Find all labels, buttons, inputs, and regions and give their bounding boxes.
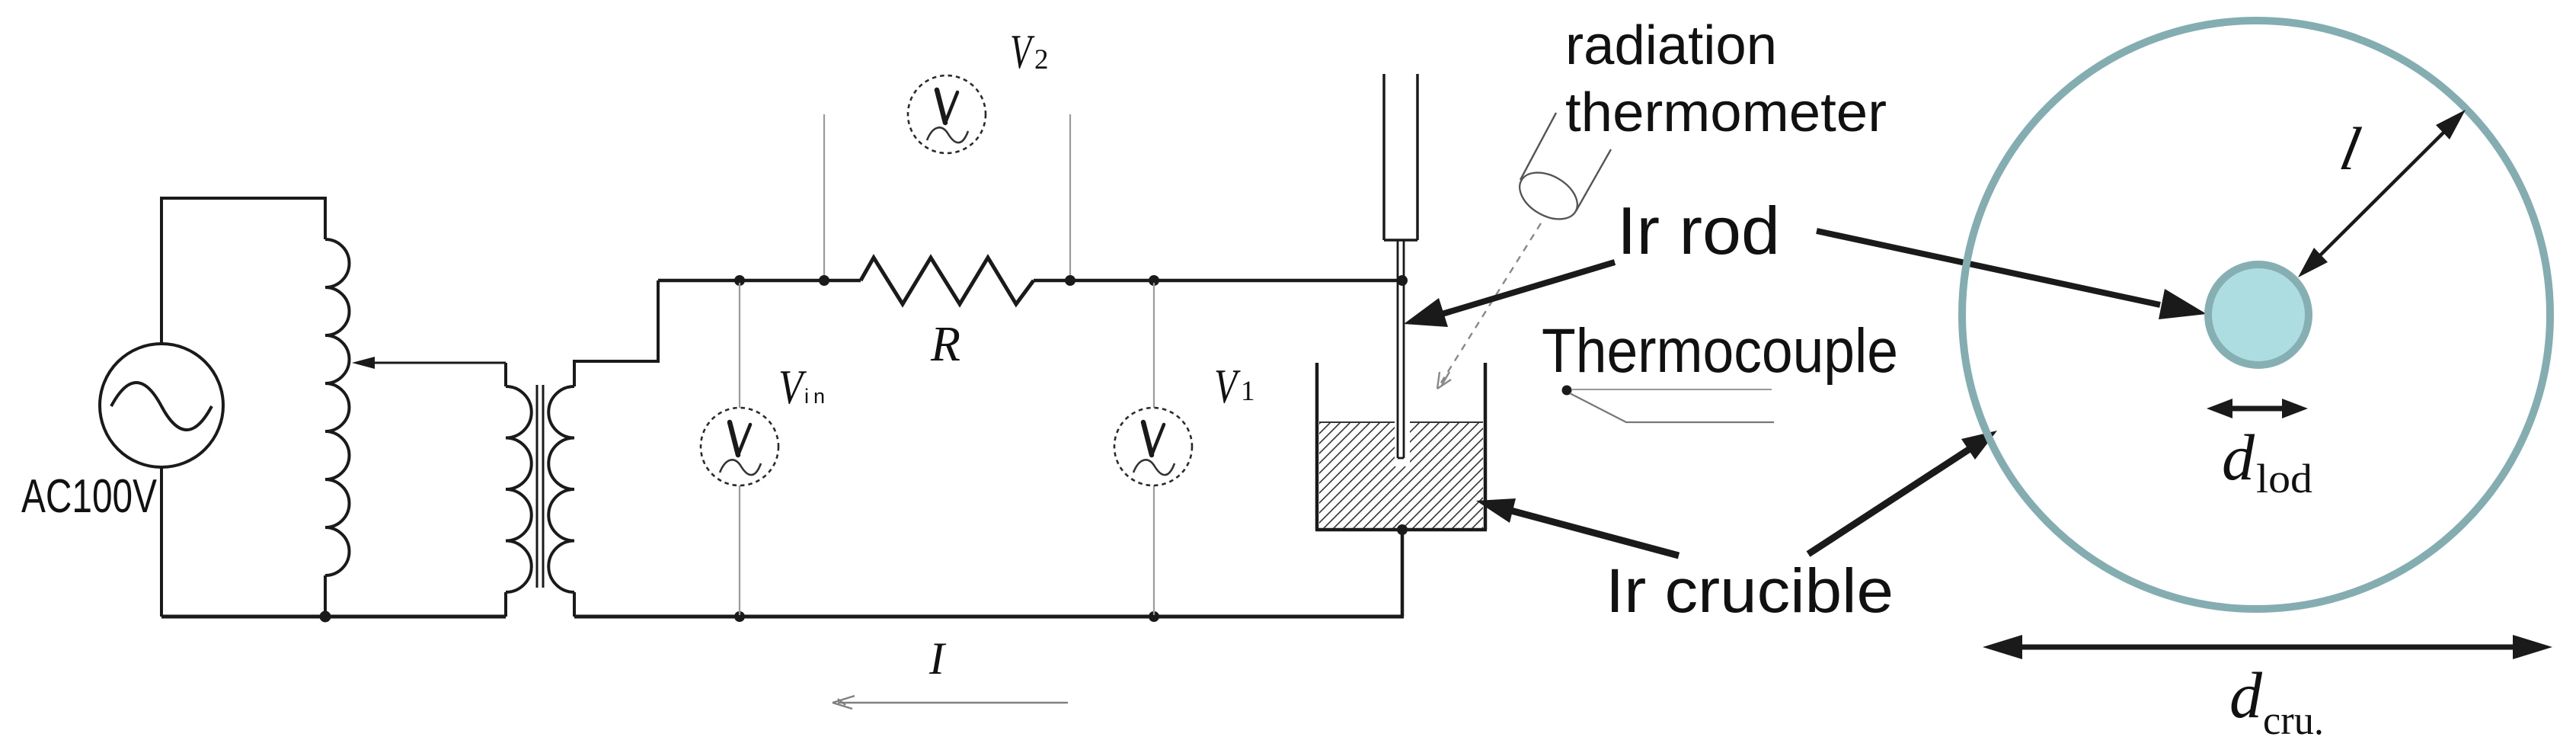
V2 meter lead stub right (1069, 114, 1071, 280)
radiation thermometer lens ellipse (1511, 163, 1585, 229)
thermocouple wire upper (1571, 389, 1772, 390)
current I arrowhead (833, 696, 855, 709)
melt surface line (1319, 421, 1483, 423)
svg-text:AC100V: AC100V (21, 470, 157, 523)
radiation thermometer cylinder body (1520, 113, 1611, 211)
transformer T2 primary winding (506, 386, 532, 592)
node dot bottom-V1 (1149, 611, 1159, 622)
transformer secondary top lead staircase (574, 280, 658, 386)
svg-text:d: d (2229, 658, 2263, 732)
Ir rod cross-section small circle (2208, 264, 2309, 365)
arrow Ir-crucible-label to cross-section circle (1808, 449, 1970, 554)
node dot rail-1405 (1065, 275, 1075, 286)
svg-text:1: 1 (1241, 376, 1255, 407)
svg-text:V: V (778, 360, 807, 414)
voltmeter V2 (908, 75, 986, 153)
arrow Ir-rod-label to rod (1440, 262, 1615, 315)
resistor R (861, 258, 1034, 304)
dimension arrow d_cru (2015, 645, 2520, 650)
variac tap wire (370, 362, 506, 364)
transformer secondary bottom lead (573, 592, 576, 617)
transformer core (537, 385, 543, 588)
node dot bottom-Vin (734, 611, 745, 622)
transformer T2 secondary winding (548, 386, 574, 592)
AC source V0 (circle with sine) (100, 344, 223, 467)
node dot rail-Vin (734, 275, 745, 286)
bottom rail left segment (161, 615, 506, 619)
svg-text:lod: lod (2256, 456, 2312, 501)
svg-text:V: V (1214, 360, 1241, 413)
arrow Ir-crucible-label to crucible (1511, 511, 1679, 556)
svg-text:V: V (1010, 25, 1035, 79)
top rail left of resistor (658, 279, 861, 283)
node dot rail-V1 (1149, 275, 1159, 286)
variac tap arrowhead (352, 357, 375, 369)
node dot rail-1082 (819, 275, 829, 286)
svg-text:cru.: cru. (2263, 697, 2324, 743)
junction dot variac-bottom (320, 611, 331, 623)
dimension arrow d_lod (2228, 406, 2287, 412)
svg-text:Ir crucible: Ir crucible (1606, 556, 1894, 626)
Ir rod (thin rod into melt) (1398, 240, 1404, 458)
bottom rail right segment (574, 615, 1404, 619)
svg-text:Thermocouple: Thermocouple (1542, 316, 1898, 386)
node dot crucible bottom (1397, 524, 1408, 535)
Ir crucible walls (1315, 363, 1487, 530)
voltmeter Vin leads (739, 283, 740, 615)
rod clearance in melt (1395, 421, 1410, 466)
svg-text:2: 2 (1034, 44, 1049, 75)
arrow Ir-rod-label to cross-section (1817, 231, 2160, 305)
svg-text:d: d (2222, 421, 2255, 494)
variac bottom lead (324, 575, 327, 617)
voltmeter Vin (701, 408, 778, 485)
svg-text:radiation: radiation (1565, 15, 1777, 76)
crucible cross-section outer circle (1962, 21, 2550, 609)
wire crucible to bottom rail (1401, 530, 1405, 617)
node dot rail-rod junction (1397, 275, 1408, 286)
transformer primary leads (504, 363, 507, 617)
radiation thermometer dashed sight line (1437, 223, 1541, 389)
current I arrow line (838, 702, 1068, 703)
top rail right of resistor (1034, 279, 1402, 283)
thermocouple junction dot (1562, 386, 1572, 396)
thermocouple wire lower bent (1570, 393, 1774, 422)
autotransformer (variac) winding T1 (325, 239, 350, 575)
dimension arrow l (radius) (2316, 130, 2447, 260)
voltmeter V1 leads (1153, 283, 1155, 615)
V2 meter lead stub left (823, 114, 825, 280)
svg-text:thermometer: thermometer (1565, 82, 1887, 143)
svg-text:R: R (930, 316, 960, 372)
dashed sight arrowhead (1437, 372, 1451, 389)
svg-text:I: I (928, 633, 947, 684)
Ir rod holder tube (1384, 74, 1417, 240)
melt hatched fill (1319, 422, 1483, 528)
voltmeter V1 (1114, 408, 1192, 485)
svg-text:Ir rod: Ir rod (1617, 193, 1780, 268)
wire source top to variac (161, 198, 325, 344)
wire source bottom to bottom rail (160, 467, 163, 617)
svg-text:in: in (804, 385, 829, 408)
